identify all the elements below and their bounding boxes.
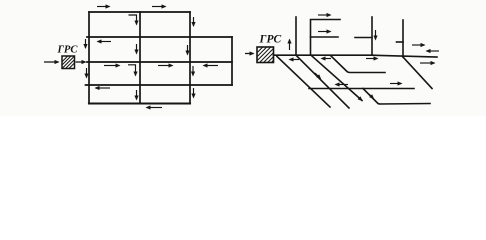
svg-text:ГРС: ГРС <box>57 44 79 55</box>
svg-text:ГРС: ГРС <box>259 33 282 45</box>
